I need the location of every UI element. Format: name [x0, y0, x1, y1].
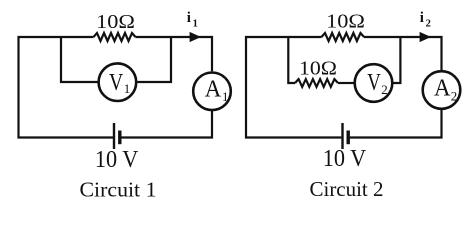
svg-text:2: 2 — [381, 82, 388, 97]
svg-text:1: 1 — [193, 19, 198, 30]
svg-text:10 V: 10 V — [95, 146, 139, 173]
svg-text:2: 2 — [451, 89, 458, 104]
svg-text:10 V: 10 V — [323, 145, 367, 172]
svg-text:10Ω: 10Ω — [326, 11, 365, 33]
svg-text:2: 2 — [426, 19, 431, 30]
svg-text:i: i — [187, 10, 191, 26]
svg-text:10Ω: 10Ω — [299, 58, 337, 80]
svg-text:Circuit 1: Circuit 1 — [80, 178, 157, 202]
svg-text:1: 1 — [124, 81, 131, 96]
svg-text:V: V — [367, 70, 381, 96]
svg-text:1: 1 — [222, 89, 229, 104]
svg-text:A: A — [205, 76, 222, 102]
svg-text:Circuit 2: Circuit 2 — [310, 177, 384, 201]
svg-text:A: A — [434, 76, 451, 102]
svg-text:10Ω: 10Ω — [96, 11, 135, 33]
svg-text:V: V — [109, 70, 124, 96]
svg-text:i: i — [420, 10, 424, 26]
